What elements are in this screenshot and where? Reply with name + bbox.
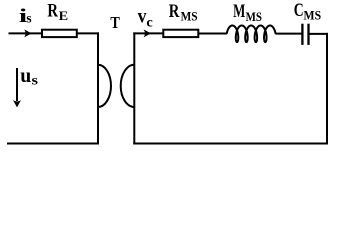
capacitor C_MS right plate: [307, 24, 309, 45]
svg-text:M: M: [233, 1, 245, 22]
svg-text:c: c: [146, 16, 152, 31]
capacitor C_MS left plate: [301, 24, 303, 45]
svg-text:u: u: [20, 65, 31, 87]
current arrow i_s: [24, 29, 31, 37]
svg-text:T: T: [110, 13, 120, 32]
wire right vertical (transformer secondary side): [133, 32, 135, 144]
svg-text:C: C: [294, 0, 304, 21]
svg-text:MS: MS: [304, 7, 322, 22]
svg-text:MS: MS: [181, 8, 198, 23]
wire bottom-left horizontal: [7, 143, 99, 145]
svg-text:s: s: [26, 12, 32, 27]
svg-text:s: s: [32, 74, 39, 89]
wire top-right horizontal to R_MS: [133, 32, 163, 34]
wire inductor to capacitor: [275, 33, 301, 35]
wire left vertical (transformer primary side): [97, 32, 99, 144]
voltage arrow u_s: [16, 68, 18, 101]
wire R_MS to inductor: [198, 33, 227, 35]
resistor R_E: [42, 30, 77, 37]
wire resistor R_E to corner: [77, 32, 99, 34]
svg-text:R: R: [169, 1, 180, 22]
resistor R_MS: [163, 30, 198, 37]
wire top-left horizontal: [9, 32, 43, 34]
wire capacitor to corner: [309, 33, 329, 35]
wire bottom-right horizontal: [133, 143, 328, 145]
svg-text:MS: MS: [246, 9, 262, 24]
transformer T primary winding arc: [98, 65, 111, 107]
inductor M_MS coil: [227, 26, 276, 43]
svg-text:E: E: [59, 8, 68, 23]
current arrow v_c: [144, 29, 151, 37]
wire right vertical edge: [326, 33, 328, 145]
svg-text:R: R: [47, 1, 58, 22]
transformer T secondary winding arc: [121, 65, 135, 107]
